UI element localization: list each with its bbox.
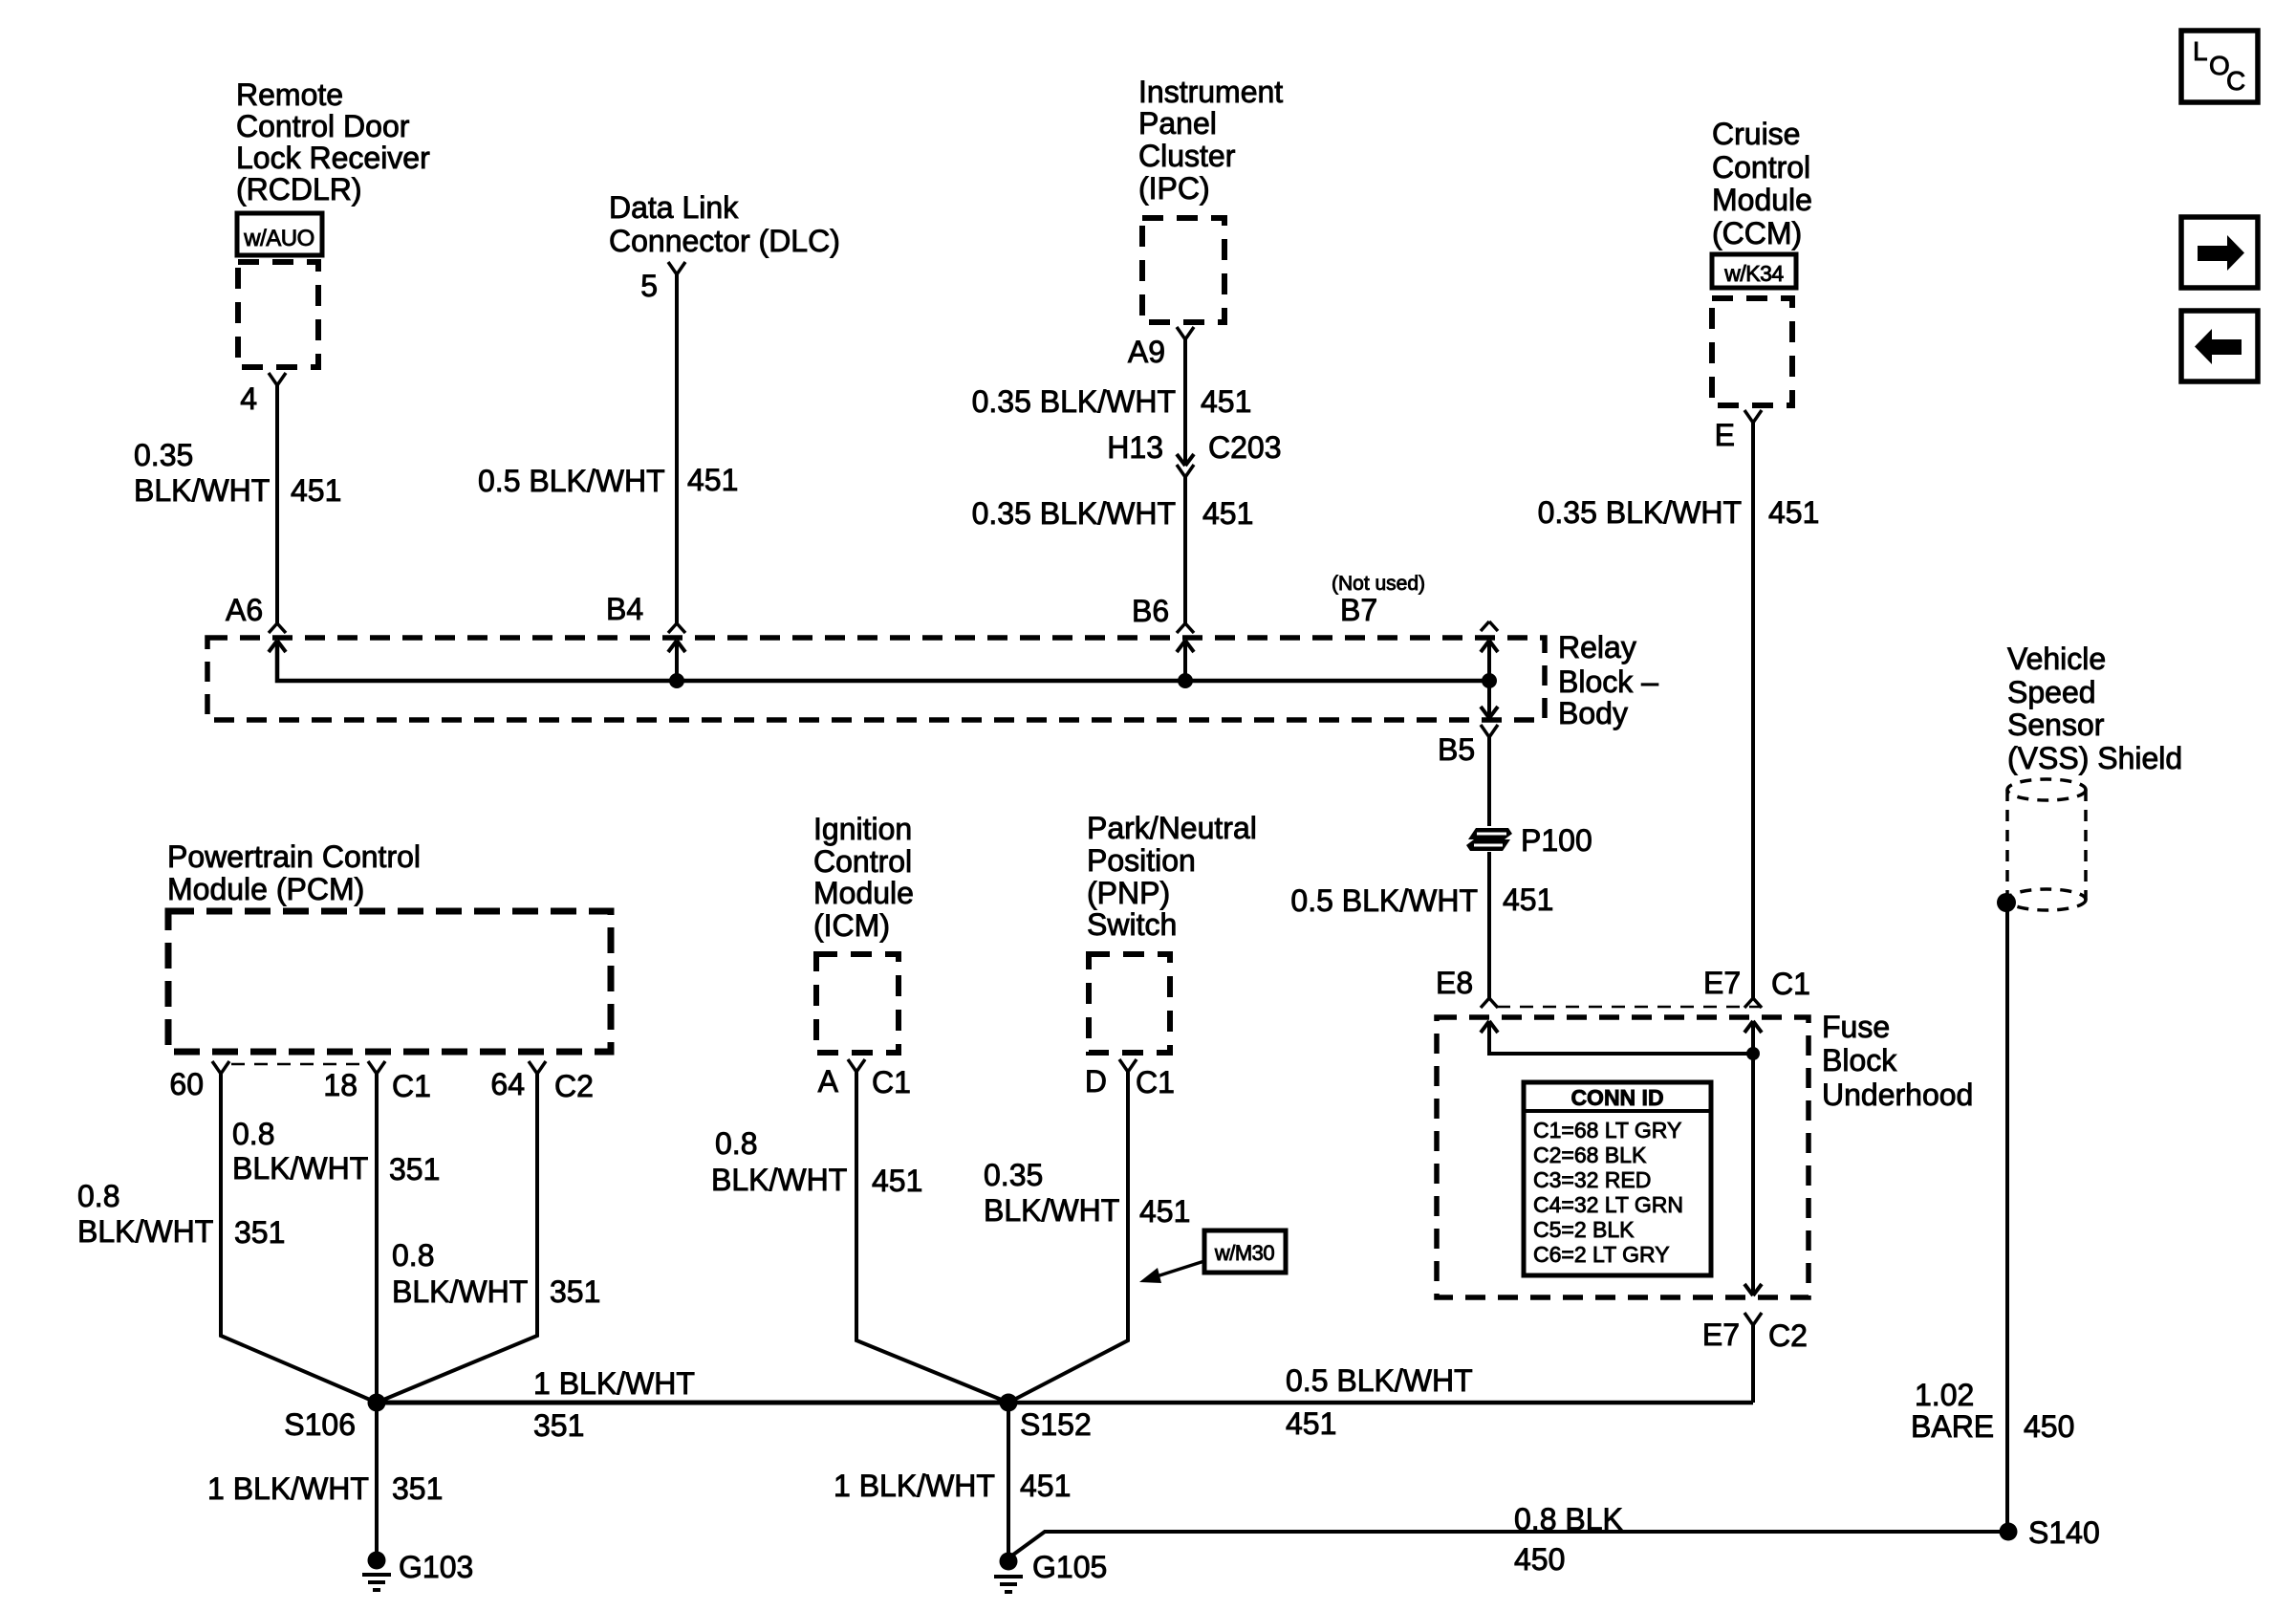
svg-text:(Not used): (Not used) [1332, 573, 1425, 595]
wire inside relay block from A6 [277, 641, 1489, 681]
CCM component box (dashed) [1712, 298, 1792, 405]
svg-text:451: 451 [291, 473, 341, 508]
fuse block label [1822, 1010, 1973, 1112]
pin 18 label [323, 1068, 357, 1102]
svg-text:w/AUO: w/AUO [243, 226, 314, 251]
label 0.8 BLK/WHT 451 (ICM wire) [711, 1126, 922, 1198]
label S140 [2028, 1515, 2100, 1550]
fuse block underhood box (dashed) [1437, 1017, 1809, 1297]
RCDLR pin 4 connector [269, 373, 286, 385]
svg-text:C1: C1 [1771, 967, 1810, 1001]
svg-text:0.5 BLK/WHT: 0.5 BLK/WHT [1290, 883, 1478, 918]
splice S152 [1000, 1394, 1018, 1412]
svg-text:351: 351 [389, 1152, 440, 1186]
svg-text:351: 351 [392, 1471, 443, 1506]
svg-text:0.8 BLK: 0.8 BLK [1514, 1502, 1623, 1536]
svg-text:451: 451 [872, 1164, 922, 1198]
CCM pin E connector [1744, 410, 1762, 423]
svg-text:1 BLK/WHT: 1 BLK/WHT [834, 1469, 995, 1503]
svg-text:Powertrain Control: Powertrain Control [167, 839, 421, 874]
svg-text:B4: B4 [606, 592, 643, 626]
IPC pin A9 connector [1177, 327, 1194, 339]
wire P100 to E8 [1487, 852, 1491, 998]
junction at B7 [1482, 673, 1497, 688]
node A6 connector [269, 623, 286, 652]
wire B6 stub [1183, 641, 1187, 681]
svg-text:S140: S140 [2028, 1515, 2100, 1550]
svg-text:Vehicle: Vehicle [2007, 642, 2106, 676]
wire VSS shield to S140 [2005, 903, 2009, 1532]
svg-text:Cruise: Cruise [1712, 117, 1800, 151]
svg-text:Instrument: Instrument [1138, 75, 1283, 109]
svg-text:Position: Position [1087, 843, 1196, 878]
svg-text:E: E [1715, 418, 1735, 452]
svg-text:Module (PCM): Module (PCM) [167, 872, 364, 906]
svg-text:Body: Body [1558, 696, 1628, 730]
svg-text:0.35: 0.35 [984, 1158, 1043, 1192]
node E8 connector [1481, 998, 1498, 1033]
PNP pin D connector [1119, 1059, 1137, 1072]
svg-text:Remote: Remote [236, 77, 343, 112]
svg-text:E8: E8 [1436, 966, 1473, 1000]
svg-text:(VSS) Shield: (VSS) Shield [2007, 741, 2182, 775]
svg-text:Cluster: Cluster [1138, 139, 1236, 173]
component ICM label [813, 812, 914, 943]
svg-text:B5: B5 [1438, 732, 1475, 767]
PNP component box (dashed) [1089, 954, 1170, 1053]
component CCM label [1712, 117, 1812, 250]
label 1.02 BARE 450 [1911, 1378, 2074, 1444]
svg-text:A6: A6 [226, 593, 263, 627]
svg-text:C6=2 LT GRY: C6=2 LT GRY [1533, 1242, 1670, 1267]
svg-text:0.8: 0.8 [232, 1117, 274, 1151]
wire S152 to G105 [1007, 1403, 1010, 1557]
svg-text:0.35 BLK/WHT: 0.35 BLK/WHT [972, 384, 1176, 419]
CCM option tag w/K34 [1712, 254, 1796, 288]
junction at B4 [669, 673, 684, 688]
svg-text:451: 451 [687, 463, 738, 497]
label C1 (PNP) [1136, 1065, 1175, 1099]
label C203 [1208, 430, 1282, 465]
label 0.35 BLK/WHT 451 (RCDLR wire) [134, 438, 341, 508]
node B6 connector [1177, 623, 1194, 652]
label 1 BLK/WHT 351 (G103 wire) [207, 1471, 443, 1506]
wire PCM 64 to S106 [377, 1074, 537, 1403]
svg-text:w/M30: w/M30 [1214, 1241, 1275, 1265]
pin 4 label [240, 381, 257, 416]
splice S106 [368, 1394, 386, 1412]
label 0.8 BLK 450 [1514, 1502, 1623, 1577]
svg-text:BLK/WHT: BLK/WHT [232, 1151, 368, 1186]
node B5 exit arrow [1481, 707, 1498, 737]
svg-text:Connector (DLC): Connector (DLC) [609, 224, 840, 258]
svg-text:450: 450 [2024, 1409, 2074, 1444]
svg-text:Speed: Speed [2007, 675, 2096, 709]
pin 60 label [169, 1067, 204, 1101]
svg-text:B7: B7 [1340, 593, 1377, 627]
svg-text:64: 64 [490, 1067, 525, 1101]
svg-text:G103: G103 [399, 1550, 473, 1584]
junction inside fuse block [1746, 1047, 1760, 1060]
DLC pin 5 connector [668, 262, 685, 274]
relay block body box (dashed) [207, 638, 1545, 720]
wire bus S152 to fuse block [1008, 1401, 1753, 1405]
PCM pin 60 connector [212, 1061, 229, 1074]
wire ICM A to S152 [856, 1072, 1008, 1403]
svg-text:E7: E7 [1703, 966, 1741, 1000]
wire S140 to G105 (0.8 BLK 450) [1009, 1532, 2008, 1557]
svg-text:L: L [2193, 36, 2208, 66]
label (Not used) [1332, 573, 1425, 595]
label 0.35 BLK/WHT 451 (CCM wire) [1538, 495, 1820, 530]
svg-text:0.8: 0.8 [392, 1238, 434, 1273]
svg-text:(RCDLR): (RCDLR) [236, 172, 362, 207]
svg-text:Switch: Switch [1087, 907, 1177, 942]
loc reference box [2181, 31, 2258, 102]
wire PNP D to S152 [1008, 1072, 1128, 1403]
svg-text:S152: S152 [1020, 1407, 1092, 1442]
svg-text:0.35 BLK/WHT: 0.35 BLK/WHT [972, 496, 1176, 531]
svg-text:A: A [818, 1064, 839, 1099]
conn id table [1524, 1082, 1711, 1275]
wire CCM E to fuse block E7/C1 [1751, 423, 1755, 998]
svg-text:451: 451 [1202, 496, 1253, 531]
svg-text:C3=32 RED: C3=32 RED [1533, 1167, 1651, 1192]
wire B4 stub [675, 641, 679, 681]
RCDLR option tag w/AUO [237, 213, 322, 255]
svg-text:C203: C203 [1208, 430, 1282, 465]
pin A label [818, 1064, 839, 1099]
svg-text:Block: Block [1822, 1043, 1897, 1078]
svg-text:Block –: Block – [1558, 664, 1658, 699]
node E7/C2 connector [1744, 1284, 1762, 1325]
wire B7 stub [1487, 641, 1491, 718]
wire IPC A9 to connector C203 [1183, 339, 1187, 466]
wire B5 to P100 [1487, 737, 1491, 826]
svg-text:BLK/WHT: BLK/WHT [134, 473, 270, 508]
label S106 [284, 1407, 356, 1442]
svg-text:BLK/WHT: BLK/WHT [984, 1193, 1119, 1228]
label 0.5 BLK/WHT 451 (right bus) [1286, 1363, 1473, 1441]
wire PCM 60 to S106 [221, 1074, 377, 1403]
component PNP label [1087, 811, 1257, 942]
svg-text:Sensor: Sensor [2007, 708, 2105, 742]
svg-text:Panel: Panel [1138, 106, 1217, 141]
svg-text:4: 4 [240, 381, 257, 416]
wire RCDLR pin4 to relay block A6 [275, 385, 279, 623]
svg-text:Control Door: Control Door [236, 109, 410, 143]
ICM component box (dashed) [816, 954, 899, 1053]
svg-text:Ignition: Ignition [813, 812, 912, 846]
in-line connector H13 C203 [1177, 454, 1194, 477]
node E8 label [1436, 966, 1473, 1000]
svg-text:451: 451 [1020, 1469, 1071, 1503]
svg-text:C: C [2226, 66, 2245, 96]
svg-text:C1: C1 [1136, 1065, 1175, 1099]
label G103 [399, 1550, 473, 1584]
svg-text:C4=32 LT GRN: C4=32 LT GRN [1533, 1192, 1683, 1217]
svg-text:(PNP): (PNP) [1087, 876, 1170, 910]
RCDLR component box (dashed) [238, 262, 318, 367]
label C1 (PCM) [392, 1069, 431, 1103]
svg-text:G105: G105 [1032, 1550, 1107, 1584]
w/M30 pointer arrow [1139, 1261, 1204, 1283]
label 0.35 BLK/WHT 451 (PNP wire) [984, 1158, 1190, 1229]
IPC component box (dashed) [1142, 218, 1224, 322]
svg-text:C2=68 BLK: C2=68 BLK [1533, 1143, 1647, 1167]
svg-text:BLK/WHT: BLK/WHT [77, 1214, 213, 1249]
svg-text:BLK/WHT: BLK/WHT [392, 1274, 528, 1309]
label 0.8 BLK/WHT 351 (pin 60 wire) [77, 1179, 285, 1250]
option tag w/M30 [1204, 1230, 1286, 1273]
wire S106 to G103 [375, 1403, 379, 1557]
svg-text:18: 18 [323, 1068, 357, 1102]
svg-text:Park/Neutral: Park/Neutral [1087, 811, 1257, 845]
svg-text:Module: Module [1712, 183, 1812, 217]
VSS shield cylinder (dashed) [2007, 779, 2086, 910]
svg-text:351: 351 [533, 1408, 584, 1443]
svg-text:C2: C2 [1768, 1318, 1808, 1353]
svg-text:A9: A9 [1128, 335, 1165, 369]
grommet P100 [1466, 828, 1512, 851]
svg-text:C5=2 BLK: C5=2 BLK [1533, 1217, 1635, 1242]
wire bus S106 to S152 [377, 1401, 1008, 1405]
svg-text:C1=68 LT GRY: C1=68 LT GRY [1533, 1118, 1681, 1143]
node B7 connector (not used) [1481, 621, 1498, 652]
pin E label [1715, 418, 1735, 452]
node B6 label [1132, 594, 1169, 628]
ground G105 [994, 1553, 1023, 1593]
label 1 BLK/WHT 351 (bus) [533, 1366, 695, 1443]
node E7/C2 labels [1702, 1317, 1808, 1353]
label C1 (ICM) [872, 1065, 911, 1099]
svg-text:P100: P100 [1521, 823, 1592, 858]
component IPC label [1138, 75, 1283, 206]
connector row E dashed link [1497, 1006, 1761, 1009]
junction at B6 [1178, 673, 1193, 688]
wire E8 to junction inside fuse block [1489, 1021, 1753, 1054]
svg-text:60: 60 [169, 1067, 204, 1101]
svg-text:0.5 BLK/WHT: 0.5 BLK/WHT [1286, 1363, 1473, 1398]
PCM connector C1 dashed link [231, 1063, 361, 1066]
svg-text:C1: C1 [392, 1069, 431, 1103]
svg-text:(IPC): (IPC) [1138, 171, 1210, 206]
svg-text:BARE: BARE [1911, 1409, 1994, 1444]
label 0.35 BLK/WHT 451 (upper IPC wire) [972, 384, 1252, 419]
previous page arrow box [2181, 311, 2258, 381]
component DLC label [609, 190, 840, 258]
wire DLC pin5 to relay block B4 [675, 274, 679, 623]
relay block label [1558, 630, 1658, 730]
PCM pin 18 connector [368, 1061, 385, 1074]
wire PCM 18 to S106 [375, 1074, 379, 1403]
label P100 [1521, 823, 1592, 858]
wire junction to E7/C2 [1751, 1054, 1755, 1295]
label 0.5 BLK/WHT 451 (DLC wire) [478, 463, 738, 498]
svg-text:H13: H13 [1107, 430, 1163, 465]
svg-text:451: 451 [1503, 882, 1553, 917]
label G105 [1032, 1550, 1107, 1584]
node B5 label [1438, 732, 1475, 767]
svg-text:0.35 BLK/WHT: 0.35 BLK/WHT [1538, 495, 1742, 530]
node B7 label [1340, 593, 1377, 627]
node B4 connector [668, 623, 685, 652]
svg-text:0.8: 0.8 [715, 1126, 757, 1161]
splice S140 [2000, 1523, 2018, 1541]
svg-text:450: 450 [1514, 1542, 1565, 1577]
svg-text:B6: B6 [1132, 594, 1169, 628]
pin 5 label [640, 269, 658, 303]
svg-text:E7: E7 [1702, 1317, 1740, 1352]
ICM pin A connector [848, 1059, 865, 1072]
svg-text:Relay: Relay [1558, 630, 1636, 664]
label H13 [1107, 430, 1163, 465]
svg-text:D: D [1085, 1064, 1107, 1099]
ground G103 [362, 1552, 391, 1591]
svg-text:Lock Receiver: Lock Receiver [236, 141, 430, 175]
svg-text:(ICM): (ICM) [813, 908, 890, 943]
svg-text:BLK/WHT: BLK/WHT [711, 1163, 847, 1197]
svg-text:351: 351 [550, 1274, 600, 1309]
next page arrow box [2181, 217, 2258, 288]
node E7/C1 connector [1744, 998, 1762, 1033]
svg-text:Control: Control [813, 844, 912, 879]
pin 64 label [490, 1067, 525, 1101]
label 0.5 BLK/WHT 451 (B5 wire) [1290, 882, 1553, 918]
svg-text:0.5 BLK/WHT: 0.5 BLK/WHT [478, 464, 665, 498]
svg-text:1 BLK/WHT: 1 BLK/WHT [207, 1471, 369, 1506]
PCM component box (dashed) [168, 911, 611, 1052]
svg-text:C2: C2 [554, 1069, 594, 1103]
svg-text:0.8: 0.8 [77, 1179, 119, 1213]
label S152 [1020, 1407, 1092, 1442]
component RCDLR label [236, 77, 430, 207]
svg-text:w/K34: w/K34 [1723, 261, 1784, 286]
VSS shield junction [1997, 893, 2016, 912]
svg-text:Control: Control [1712, 150, 1810, 185]
svg-text:1.02: 1.02 [1915, 1378, 1974, 1412]
svg-text:(CCM): (CCM) [1712, 216, 1802, 250]
svg-text:CONN ID: CONN ID [1570, 1085, 1663, 1110]
svg-text:Fuse: Fuse [1822, 1010, 1890, 1044]
label 0.8 BLK/WHT 351 (pin 18 wire) [232, 1117, 440, 1186]
svg-text:451: 451 [1139, 1194, 1190, 1229]
PCM pin 64 connector [529, 1061, 546, 1074]
node E7/C1 labels [1703, 966, 1810, 1001]
svg-text:451: 451 [1201, 384, 1251, 419]
wire C203 to relay block B6 [1183, 477, 1187, 623]
pin D label [1085, 1064, 1107, 1099]
svg-text:451: 451 [1286, 1406, 1336, 1441]
node B4 label [606, 592, 643, 626]
wire E7/C1 stub [1751, 1021, 1755, 1054]
node A6 label [226, 593, 263, 627]
label 1 BLK/WHT 451 (G105 wire) [834, 1469, 1071, 1503]
svg-text:1 BLK/WHT: 1 BLK/WHT [533, 1366, 695, 1401]
svg-text:Module: Module [813, 876, 914, 910]
label 0.8 BLK/WHT 351 (pin 64 wire) [392, 1238, 600, 1309]
svg-text:Data Link: Data Link [609, 190, 739, 225]
svg-text:C1: C1 [872, 1065, 911, 1099]
svg-text:5: 5 [640, 269, 658, 303]
svg-text:351: 351 [234, 1215, 285, 1250]
svg-text:0.35: 0.35 [134, 438, 193, 472]
svg-text:S106: S106 [284, 1407, 356, 1442]
component VSS shield label [2007, 642, 2182, 775]
label C2 (PCM) [554, 1069, 594, 1103]
pin A9 label [1128, 335, 1165, 369]
component PCM label [167, 839, 421, 906]
svg-text:451: 451 [1768, 495, 1819, 530]
label 0.35 BLK/WHT 451 (lower IPC wire) [972, 496, 1254, 531]
wire E7/C2 to bus [1751, 1325, 1755, 1403]
svg-text:Underhood: Underhood [1822, 1078, 1973, 1112]
